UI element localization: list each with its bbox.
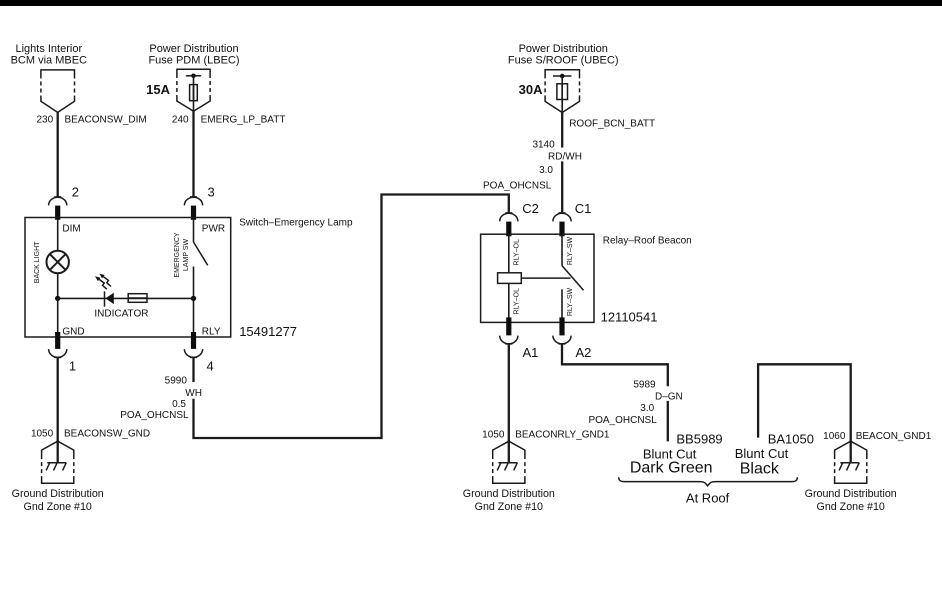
svg-text:3: 3 — [208, 185, 215, 200]
svg-text:RLY–OL: RLY–OL — [513, 288, 520, 314]
svg-text:RLY–OL: RLY–OL — [513, 239, 520, 265]
svg-text:BEACONRLY_GND1: BEACONRLY_GND1 — [515, 430, 610, 441]
svg-text:Fuse S/ROOF (UBEC): Fuse S/ROOF (UBEC) — [508, 55, 619, 67]
svg-text:1050: 1050 — [482, 430, 505, 441]
svg-text:4: 4 — [207, 359, 214, 374]
svg-text:C1: C1 — [575, 201, 592, 216]
svg-text:BEACONSW_DIM: BEACONSW_DIM — [65, 114, 147, 125]
node Power Distribution Fuse S/ROOF (UBEC) header — [508, 43, 619, 67]
svg-text:POA_OHCNSL: POA_OHCNSL — [120, 410, 189, 421]
svg-text:POA_OHCNSL: POA_OHCNSL — [588, 415, 657, 426]
svg-text:RD/WH: RD/WH — [548, 151, 582, 162]
svg-text:5990: 5990 — [165, 375, 188, 386]
svg-text:Ground Distribution: Ground Distribution — [12, 488, 104, 500]
svg-text:RLY–SW: RLY–SW — [567, 236, 574, 265]
pin C1 in-line connector — [553, 213, 571, 236]
svg-text:1: 1 — [69, 359, 76, 374]
pin A2 in-line connector — [553, 317, 571, 344]
svg-text:A1: A1 — [523, 345, 539, 360]
svg-text:230: 230 — [37, 114, 54, 125]
switch blade emergency lamp sw — [194, 242, 208, 265]
wire switch lower contact to RLY — [193, 267, 195, 338]
wire circuit 240 EMERG_LP_BATT — [192, 110, 194, 196]
svg-text:Lights Interior: Lights Interior — [15, 43, 82, 55]
wire DIM leg to back light — [57, 219, 59, 251]
wire circuit 1050 BEACONSW_GND — [57, 358, 59, 441]
svg-text:Gnd Zone #10: Gnd Zone #10 — [817, 501, 885, 513]
svg-text:GND: GND — [62, 326, 84, 337]
wire PWR leg to switch contact — [193, 219, 195, 242]
svg-text:Power Distribution: Power Distribution — [149, 43, 238, 55]
svg-text:3140: 3140 — [532, 139, 555, 150]
svg-text:BEACONSW_GND: BEACONSW_GND — [64, 429, 150, 440]
svg-text:A2: A2 — [576, 345, 592, 360]
relay coil (rectangle) — [498, 273, 522, 284]
wire circuit 5989 (lower segment to blunt cut) — [667, 401, 669, 442]
wire 5990 routing to relay C2 — [194, 195, 509, 439]
pin 2 in-line connector — [49, 197, 67, 220]
svg-text:Fuse PDM (LBEC): Fuse PDM (LBEC) — [148, 55, 239, 67]
wire circuit 230 BEACONSW_DIM — [57, 112, 59, 197]
svg-text:Dark Green: Dark Green — [630, 459, 713, 476]
fuse F S/ROOF 30A (dashed component outline with fuse element) — [545, 69, 579, 113]
wire switch leg upper — [561, 236, 563, 266]
svg-text:15491277: 15491277 — [239, 324, 297, 339]
label Ground Distribution Gnd Zone 10 (right) — [805, 488, 897, 513]
svg-text:2: 2 — [72, 185, 79, 200]
ground G1 (BEACONSW_GND, Gnd Zone 10) — [41, 440, 75, 483]
svg-text:3.0: 3.0 — [640, 403, 654, 414]
wire BA1050 blunt cut to ground (n-shaped) — [758, 364, 851, 441]
node Power Distribution Fuse PDM (LBEC) header — [148, 43, 239, 67]
node Lights Interior BCM via MBEC (source header) — [11, 43, 87, 67]
brace At Roof — [619, 477, 798, 486]
svg-text:POA_OHCNSL: POA_OHCNSL — [483, 180, 552, 191]
svg-text:WH: WH — [185, 388, 202, 399]
switch S1 Switch-Emergency Lamp (component box) — [25, 218, 231, 338]
svg-text:BB5989: BB5989 — [676, 432, 722, 447]
svg-text:C2: C2 — [522, 201, 539, 216]
svg-text:30A: 30A — [519, 82, 543, 97]
svg-text:15A: 15A — [146, 82, 170, 97]
label Ground Distribution Gnd Zone 10 (middle) — [463, 488, 555, 513]
svg-text:Power Distribution: Power Distribution — [519, 43, 608, 55]
wire coil leg lower — [508, 283, 510, 321]
svg-text:3.0: 3.0 — [539, 165, 553, 176]
relay switch blade — [562, 266, 584, 291]
LED light arrows — [95, 274, 111, 290]
pin 4 in-line connector — [184, 332, 202, 357]
svg-text:EMERG_LP_BATT: EMERG_LP_BATT — [201, 114, 286, 125]
junction dot right — [191, 296, 196, 301]
svg-text:Ground Distribution: Ground Distribution — [463, 488, 555, 500]
svg-text:BEACON_GND1: BEACON_GND1 — [856, 431, 932, 442]
connector symbol from BCM (dashed component outline) — [41, 69, 75, 112]
wire circuit 5990 WH (upper segment) — [192, 358, 194, 382]
junction dot left — [55, 296, 60, 301]
svg-text:At Roof: At Roof — [686, 491, 730, 506]
svg-text:ROOF_BCN_BATT: ROOF_BCN_BATT — [569, 119, 655, 130]
svg-text:12110541: 12110541 — [601, 309, 658, 324]
label EMERGENCY LAMP SW (rotated) — [174, 232, 190, 277]
svg-text:BACK LIGHT: BACK LIGHT — [34, 241, 41, 283]
svg-text:Black: Black — [740, 460, 780, 477]
pin A1 in-line connector — [500, 317, 518, 344]
svg-text:5989: 5989 — [633, 379, 656, 390]
lamp back light (circle with X) — [47, 251, 69, 273]
pin C2 in-line connector — [500, 213, 518, 236]
svg-text:Relay–Roof Beacon: Relay–Roof Beacon — [603, 236, 692, 247]
wire circuit 1050 BEACONRLY_GND1 — [508, 344, 510, 441]
svg-text:INDICATOR: INDICATOR — [94, 309, 148, 320]
svg-text:Ground Distribution: Ground Distribution — [805, 488, 897, 500]
svg-text:Blunt Cut: Blunt Cut — [735, 446, 789, 461]
svg-text:LAMP SW: LAMP SW — [183, 239, 190, 272]
svg-text:Switch–Emergency Lamp: Switch–Emergency Lamp — [239, 218, 353, 229]
svg-text:240: 240 — [172, 114, 189, 125]
label Ground Distribution Gnd Zone 10 (left) — [12, 488, 104, 513]
pin 1 in-line connector — [49, 332, 67, 357]
wire switch leg lower — [561, 289, 563, 321]
svg-text:1050: 1050 — [31, 429, 54, 440]
svg-text:RLY–SW: RLY–SW — [567, 287, 574, 316]
wire circuit 3140 RD/WH (upper segment) — [561, 112, 563, 148]
wire indicator branch (horizontal) — [58, 297, 194, 299]
LED indicator D1 (cathode bar + triangle) — [105, 291, 114, 306]
wire circuit 3140 (lower segment) — [561, 161, 563, 212]
svg-text:Gnd Zone #10: Gnd Zone #10 — [24, 501, 92, 513]
wire coil leg upper — [508, 236, 510, 273]
resistor R1 (indicator series) — [128, 294, 147, 303]
wire back light to GND node — [57, 273, 59, 337]
svg-text:RLY: RLY — [202, 326, 221, 337]
wire circuit 5989 D-GN (routing from A2) — [562, 344, 668, 386]
coil-to-blade link — [521, 277, 570, 279]
svg-text:0.5: 0.5 — [172, 399, 186, 410]
svg-text:BA1050: BA1050 — [768, 431, 814, 446]
svg-text:Gnd Zone #10: Gnd Zone #10 — [475, 501, 543, 513]
ground G2 (BEACONRLY_GND1, Gnd Zone 10) — [492, 440, 526, 483]
relay K1 Relay-Roof Beacon (component box) — [481, 234, 594, 322]
svg-text:1060: 1060 — [823, 431, 846, 442]
pin 3 in-line connector — [184, 197, 202, 220]
ground G3 (BEACON_GND1, Gnd Zone 10) — [834, 440, 868, 483]
svg-text:EMERGENCY: EMERGENCY — [174, 232, 181, 277]
svg-text:BCM via MBEC: BCM via MBEC — [11, 55, 87, 67]
fuse F PDM 15A (dashed component outline with fuse element) — [177, 69, 210, 112]
svg-text:PWR: PWR — [202, 223, 225, 234]
svg-text:DIM: DIM — [62, 223, 80, 234]
